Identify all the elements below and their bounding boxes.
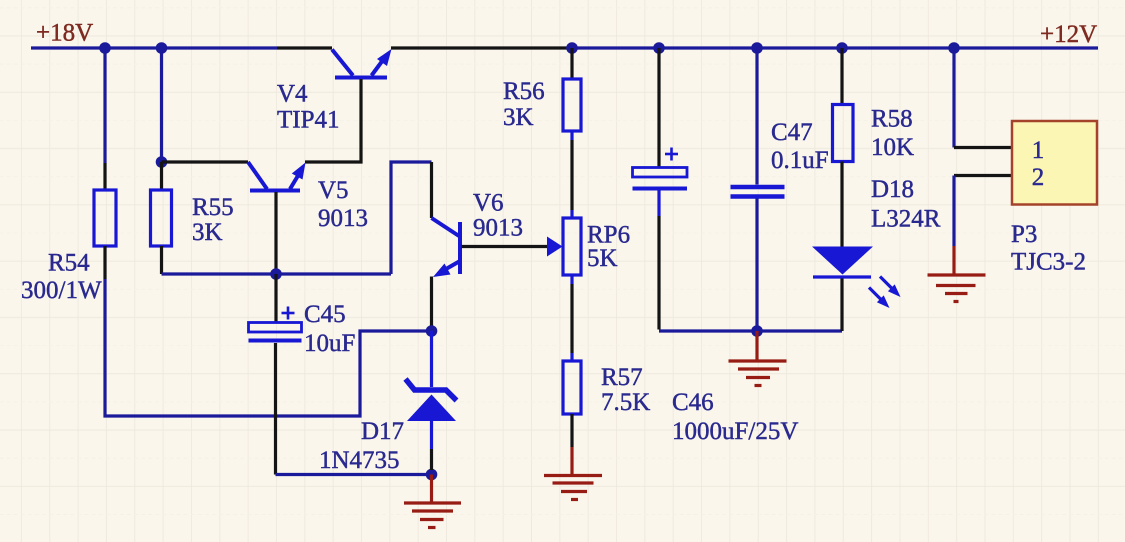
svg-text:+18V: +18V bbox=[36, 20, 93, 47]
wire V6 collector bbox=[430, 162, 433, 218]
pin R58 top bbox=[840, 48, 843, 105]
wire R55 top bbox=[160, 48, 163, 162]
junction dot R55 top node bbox=[156, 156, 168, 168]
svg-text:R56: R56 bbox=[503, 78, 545, 105]
resistor R55 bbox=[151, 190, 172, 246]
wire V6 emitter down bbox=[430, 277, 433, 328]
ground below D17 bbox=[404, 475, 461, 528]
junction dot rail R55 bbox=[156, 42, 168, 54]
diode D18 LED bbox=[812, 247, 901, 309]
svg-text:V5: V5 bbox=[318, 177, 349, 204]
wire R56 to RP6 bbox=[570, 131, 573, 218]
svg-text:2: 2 bbox=[1032, 164, 1045, 191]
wire V5 collector to node bbox=[162, 160, 249, 163]
wire base bus y274 bbox=[162, 272, 392, 275]
svg-text:P3: P3 bbox=[1011, 221, 1037, 248]
svg-text:7.5K: 7.5K bbox=[601, 389, 650, 416]
pin R56 top bbox=[570, 48, 573, 79]
junction dot rail R54 bbox=[99, 42, 111, 54]
wire top rail from V4 emitter (black) bbox=[391, 46, 572, 49]
diode D17 zener bbox=[406, 331, 457, 470]
wire pin2 to ground bbox=[952, 176, 955, 247]
svg-text:9013: 9013 bbox=[473, 215, 523, 242]
svg-text:R58: R58 bbox=[871, 106, 913, 133]
transistor V5 bbox=[248, 162, 306, 270]
svg-text:10K: 10K bbox=[871, 134, 914, 161]
capacitor C47 bbox=[731, 48, 785, 331]
svg-text:C46: C46 bbox=[672, 389, 714, 416]
svg-text:3K: 3K bbox=[503, 104, 534, 131]
wire R54 bottom to zener node bbox=[105, 246, 428, 416]
wire R58 to D18 bbox=[840, 162, 843, 247]
svg-text:C45: C45 bbox=[304, 301, 346, 328]
junction dot rail R58 bbox=[836, 42, 848, 54]
wire C45 bottom to ground node bbox=[276, 473, 429, 476]
svg-text:D18: D18 bbox=[871, 176, 914, 203]
connector P3 bbox=[1012, 121, 1097, 205]
ground below bus bbox=[729, 331, 787, 386]
wire P3 pin1 feed bbox=[952, 48, 955, 148]
svg-text:V6: V6 bbox=[473, 190, 504, 217]
resistor R54 bbox=[94, 190, 116, 246]
junction dot rail C46 bbox=[653, 42, 665, 54]
wire RP6 to R57 bbox=[570, 275, 573, 361]
svg-text:R54: R54 bbox=[48, 250, 90, 277]
svg-text:C47: C47 bbox=[771, 119, 813, 146]
svg-text:D17: D17 bbox=[361, 418, 404, 445]
wire V4 base to V5 emitter bbox=[305, 79, 361, 162]
wire V6 base to RP6 bbox=[462, 245, 550, 248]
resistor R57 bbox=[563, 361, 581, 414]
wire pin1 bbox=[954, 146, 1012, 149]
capacitor C45 bbox=[249, 274, 302, 475]
junction dot ground node bbox=[426, 469, 438, 481]
svg-text:TJC3-2: TJC3-2 bbox=[1011, 249, 1086, 276]
pin R55 top bbox=[160, 162, 163, 190]
svg-text:V4: V4 bbox=[277, 81, 308, 108]
svg-text:1: 1 bbox=[1032, 137, 1045, 164]
junction dot rail C47 bbox=[751, 42, 763, 54]
junction dot zener top bbox=[426, 325, 438, 337]
wire pin2 bbox=[954, 174, 1012, 177]
svg-text:10uF: 10uF bbox=[304, 330, 355, 357]
capacitor C46 bbox=[633, 48, 688, 330]
wire D18 to bus bbox=[840, 279, 843, 332]
wire R54 top bbox=[103, 48, 106, 190]
svg-text:5K: 5K bbox=[587, 245, 618, 272]
wire top rail right (blue) bbox=[572, 46, 1098, 49]
wire bottom bus bbox=[659, 329, 842, 332]
ground below P3 bbox=[928, 246, 986, 302]
resistor R58 bbox=[833, 105, 854, 162]
svg-text:300/1W: 300/1W bbox=[21, 277, 102, 304]
junction dot rail R56 bbox=[566, 42, 578, 54]
transistor V6 bbox=[432, 218, 461, 277]
resistor R56 bbox=[563, 79, 581, 131]
svg-text:3K: 3K bbox=[192, 219, 223, 246]
pin R55 bottom bbox=[160, 246, 163, 274]
junction dot rail P3 bbox=[948, 42, 960, 54]
wire jog to V6 collector bbox=[391, 162, 432, 274]
transistor V4 bbox=[332, 49, 392, 78]
potentiometer RP6 bbox=[547, 218, 581, 275]
svg-text:1000uF/25V: 1000uF/25V bbox=[672, 418, 798, 445]
svg-text:TIP41: TIP41 bbox=[277, 107, 340, 134]
pin R57 bottom bbox=[570, 414, 573, 447]
svg-text:L324R: L324R bbox=[871, 206, 941, 233]
ground below R57 bbox=[544, 447, 602, 500]
svg-text:1N4735: 1N4735 bbox=[319, 447, 400, 474]
svg-text:+12V: +12V bbox=[1040, 21, 1097, 48]
wire top rail into V4 collector (black) bbox=[277, 46, 332, 49]
svg-text:9013: 9013 bbox=[318, 205, 368, 232]
svg-text:R57: R57 bbox=[601, 364, 643, 391]
junction dot bus ground bbox=[751, 325, 763, 337]
svg-text:0.1uF: 0.1uF bbox=[771, 147, 829, 174]
junction dot V5 base node bbox=[270, 268, 282, 280]
wire top rail left (blue) bbox=[31, 46, 277, 49]
svg-text:R55: R55 bbox=[192, 194, 234, 221]
